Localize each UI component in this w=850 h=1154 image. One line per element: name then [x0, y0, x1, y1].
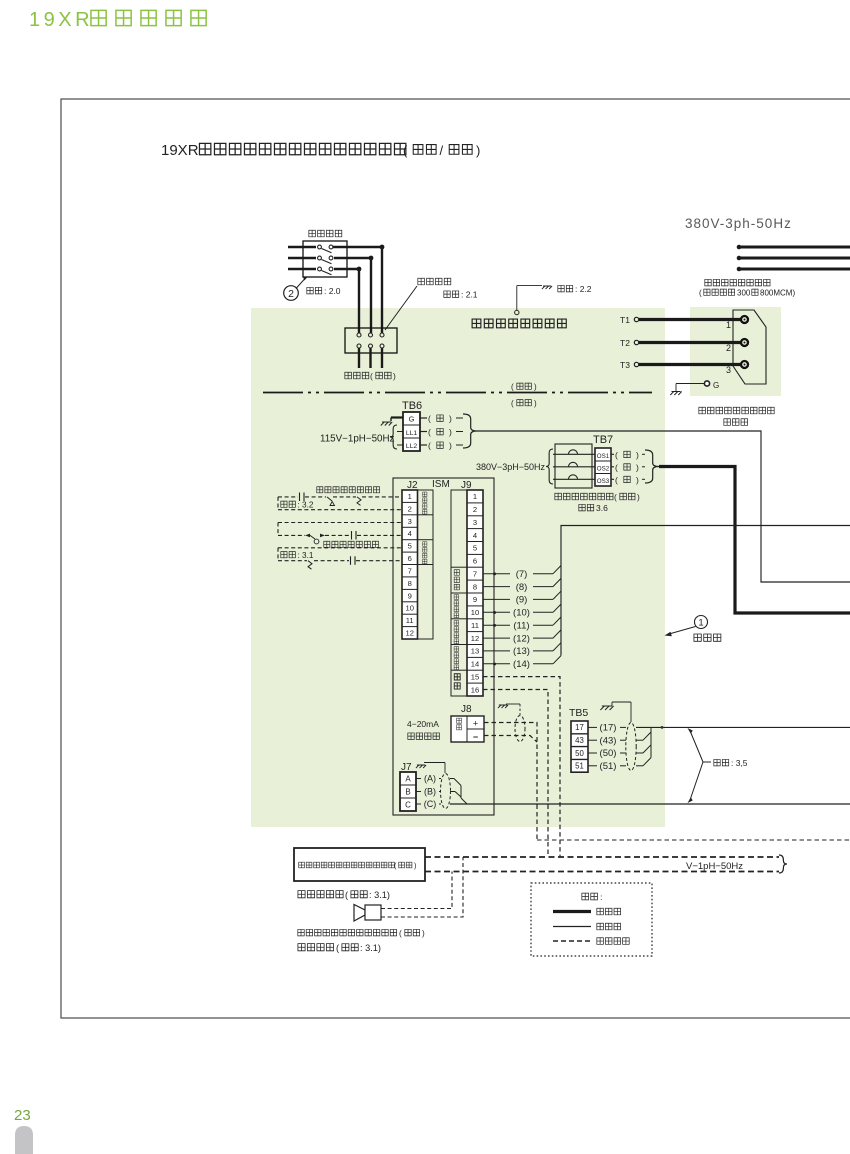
mid voltage label: [511, 383, 537, 392]
svg-text:2: 2: [726, 343, 731, 353]
svg-text:): ): [476, 143, 480, 158]
svg-text:(: (: [403, 143, 408, 158]
svg-text:(B): (B): [424, 787, 436, 797]
optional line C: [425, 871, 779, 873]
note 3.1: [281, 551, 314, 560]
svg-text:OS1: OS1: [597, 453, 610, 460]
svg-text:9: 9: [408, 591, 412, 600]
remote on/off label: [324, 541, 379, 547]
svg-text:300: 300: [737, 289, 751, 298]
svg-text:3: 3: [473, 518, 477, 527]
svg-text:(: (: [615, 450, 618, 460]
svg-text:: 3.1: : 3.1: [298, 551, 314, 560]
svg-text:50: 50: [575, 749, 584, 758]
svg-text:/: /: [440, 143, 444, 158]
connector J8: [451, 704, 484, 742]
wire phase3 to breaker: [334, 267, 361, 333]
svg-text:2: 2: [408, 504, 412, 513]
TB5 wire (51): [588, 761, 626, 772]
svg-text:2: 2: [288, 288, 294, 300]
svg-text:: 3,5: : 3,5: [731, 758, 748, 768]
svg-text:(12): (12): [513, 633, 530, 644]
remote contact wire 5: [278, 547, 402, 549]
svg-text:TB5: TB5: [569, 707, 588, 719]
svg-text:): ): [636, 450, 639, 460]
svg-text:16: 16: [471, 685, 479, 694]
low voltage label: [511, 399, 537, 408]
svg-text:(: (: [511, 383, 514, 392]
J9 wire (12): [483, 630, 561, 644]
motor terminal plate: [733, 310, 766, 384]
svg-text:): ): [449, 427, 452, 437]
svg-text:6: 6: [408, 554, 412, 563]
svg-text:: 2.2: : 2.2: [575, 284, 592, 294]
motor detail note: [699, 407, 774, 425]
note 3.2: [281, 501, 314, 510]
power feed line L3: [737, 267, 850, 272]
TB6 wire green: [420, 414, 463, 424]
svg-text:23: 23: [14, 1107, 31, 1124]
svg-text:LL2: LL2: [406, 443, 418, 450]
starter cabinet shading: [251, 308, 665, 827]
svg-text:7: 7: [473, 569, 477, 578]
J9 wire (11): [483, 617, 561, 631]
svg-text:6: 6: [473, 557, 477, 566]
svg-text:1: 1: [408, 492, 412, 501]
svg-text:: 3.1): : 3.1): [369, 890, 390, 900]
svg-text:(43): (43): [600, 735, 617, 746]
svg-text:4: 4: [408, 529, 412, 538]
svg-text:11: 11: [471, 621, 479, 630]
spare safety contacts label: [317, 487, 380, 493]
starter cabinet label: [472, 319, 566, 328]
svg-text:): ): [534, 383, 537, 392]
oil pump power wire: [659, 467, 850, 614]
J9 wire (9): [483, 591, 561, 605]
J7 wire (B): [416, 787, 441, 797]
remote contact wire 4: [278, 531, 402, 544]
page title 19XR: [29, 9, 206, 31]
svg-text:G: G: [409, 415, 415, 424]
J8 wire -: [484, 736, 537, 743]
svg-text:J8: J8: [461, 704, 472, 715]
optional line B: [425, 856, 779, 858]
svg-text:(: (: [428, 414, 431, 424]
svg-text:LL1: LL1: [406, 430, 418, 437]
svg-text:(: (: [699, 289, 702, 298]
ground note 2.2: [515, 284, 592, 315]
svg-text:V−1pH−50Hz: V−1pH−50Hz: [686, 861, 743, 872]
svg-text:19XR: 19XR: [161, 142, 199, 159]
TB5 shield: [626, 723, 636, 771]
svg-text:14: 14: [471, 660, 479, 669]
4-20mA label: [407, 719, 439, 739]
remote alarm label: [298, 943, 381, 953]
svg-text:(: (: [615, 475, 618, 485]
circuit breaker CB1: [345, 328, 397, 368]
svg-text:C: C: [405, 801, 411, 810]
TB6 wire white: [420, 441, 463, 451]
svg-text:13: 13: [471, 647, 479, 656]
bracket wires 5-6: [277, 548, 279, 561]
svg-text:(C): (C): [424, 799, 437, 809]
svg-text:): ): [534, 399, 537, 408]
power feed line L1: [737, 245, 850, 250]
remote alarm bell label: [298, 890, 390, 900]
remote bell box: [294, 848, 425, 881]
TB5 wire (50): [588, 748, 626, 759]
svg-text:11: 11: [406, 616, 414, 625]
spare safety contact wire 2: [278, 509, 402, 511]
TB6 ground: [381, 418, 403, 426]
drawing title: [161, 142, 480, 159]
svg-text:T1: T1: [620, 315, 630, 325]
J9 wire 16 (optional): [483, 690, 548, 858]
svg-text:10: 10: [405, 604, 413, 613]
legend power line: [553, 908, 621, 915]
svg-text:(11): (11): [513, 620, 529, 631]
TB6 wire black: [420, 427, 463, 437]
note 3.5 bracket: [688, 728, 748, 803]
svg-text:): ): [449, 414, 452, 424]
svg-text:1: 1: [473, 492, 477, 501]
G terminal: [670, 381, 719, 395]
svg-text:(: (: [511, 399, 514, 408]
connector J7: [400, 762, 416, 811]
breaker optional label: [345, 371, 396, 381]
TB5 wire (43): [588, 735, 626, 746]
svg-text:800MCM): 800MCM): [760, 289, 795, 298]
svg-text:(: (: [345, 890, 348, 900]
J9 wire (7): [483, 566, 561, 580]
horn wires: [381, 857, 463, 917]
motor terminal shading: [690, 307, 781, 396]
terminal block TB5: [569, 707, 588, 772]
legend optional line: [553, 938, 629, 945]
svg-text:1: 1: [698, 618, 703, 629]
J9 wire (14): [483, 656, 561, 670]
TB5 bundle: [636, 727, 651, 765]
svg-text:A: A: [405, 775, 411, 784]
remote contact wire 6: [278, 556, 402, 569]
svg-text:TB6: TB6: [402, 400, 422, 412]
TB5 shield ground: [600, 702, 631, 722]
legend control line: [553, 923, 621, 930]
svg-text:(: (: [336, 943, 339, 953]
svg-text:(17): (17): [600, 723, 617, 734]
svg-text:T3: T3: [620, 360, 630, 370]
svg-text:: 3.2: : 3.2: [298, 501, 314, 510]
svg-text:43: 43: [575, 736, 584, 745]
voltage divider line: [263, 392, 652, 394]
svg-text:8: 8: [473, 582, 477, 591]
J9 wire (10): [483, 604, 561, 618]
svg-text:(51): (51): [600, 761, 617, 772]
svg-text:(50): (50): [600, 748, 617, 759]
svg-text:OS3: OS3: [597, 478, 610, 485]
svg-text:(: (: [399, 929, 402, 938]
TB7 wire black: [611, 462, 645, 472]
svg-text:12: 12: [471, 634, 479, 643]
wire lug leader: [385, 286, 417, 330]
J9 wire 15 (optional): [483, 677, 560, 857]
svg-text:(: (: [370, 371, 373, 381]
TB6 left brace: [390, 425, 397, 449]
oil pump note: [555, 492, 640, 513]
svg-text::: :: [600, 892, 602, 902]
J7 wire C long: [450, 803, 850, 805]
TB7 left brace: [546, 449, 553, 484]
remote contact wire 3: [278, 522, 402, 524]
svg-text:3: 3: [726, 365, 731, 375]
svg-text:17: 17: [575, 723, 584, 732]
svg-text:4: 4: [473, 531, 477, 540]
svg-text:): ): [636, 475, 639, 485]
svg-text:: 2.0: : 2.0: [324, 286, 341, 296]
J7 wire (C): [416, 799, 441, 809]
svg-text:G: G: [713, 381, 719, 390]
bracket wires 1-2: [277, 497, 279, 510]
motor lead T2: [620, 338, 748, 353]
optional line A: [537, 839, 850, 841]
svg-text:(8): (8): [516, 582, 528, 593]
terminal block TB7: [593, 434, 613, 486]
svg-text:(: (: [428, 427, 431, 437]
J9 function column: [451, 490, 467, 696]
svg-text:−: −: [473, 732, 478, 742]
J7 bundle: [450, 779, 467, 805]
connector J2: [402, 480, 418, 639]
J7 shield: [441, 774, 451, 809]
svg-text:3: 3: [408, 517, 412, 526]
svg-text:): ): [422, 929, 425, 938]
svg-text:(10): (10): [513, 608, 530, 619]
svg-text:OS2: OS2: [597, 466, 610, 473]
svg-text:TB7: TB7: [593, 434, 613, 446]
svg-text:(14): (14): [513, 659, 530, 670]
J8 shield ground: [498, 704, 520, 715]
J9 wire (8): [483, 578, 561, 592]
note 2.0 text: [307, 286, 341, 296]
TB7 wire yellow: [611, 450, 645, 460]
svg-text:12: 12: [405, 629, 413, 638]
svg-text:(7): (7): [516, 569, 528, 580]
J9 wire (13): [483, 643, 561, 657]
svg-text:380V−3pH−50Hz: 380V−3pH−50Hz: [476, 462, 546, 472]
J7 shield ground: [416, 763, 445, 774]
horn icon: [354, 905, 381, 922]
svg-text:10: 10: [471, 608, 479, 617]
svg-text:): ): [414, 861, 416, 870]
svg-text:): ): [449, 441, 452, 451]
motor lead T1: [620, 315, 748, 330]
TB5 wire 17 long: [636, 726, 850, 728]
svg-text:): ): [636, 462, 639, 472]
terminal block TB6: [402, 400, 422, 451]
svg-text:(9): (9): [516, 595, 528, 606]
svg-text:1: 1: [726, 320, 731, 330]
svg-text:ISM: ISM: [432, 479, 450, 490]
J8 wire +: [484, 723, 537, 841]
svg-text:51: 51: [575, 762, 584, 771]
TB6 merge brace: [463, 414, 477, 448]
drawing frame: [61, 99, 850, 1018]
TB7 merge brace: [645, 450, 659, 483]
note 2 callout: [284, 277, 307, 300]
power feed line L2: [737, 256, 850, 261]
svg-text:2: 2: [473, 505, 477, 514]
J7 wire (A): [416, 774, 441, 784]
bracket wires 3-4: [277, 523, 279, 536]
J2 function column: [418, 490, 434, 639]
svg-text:115V−1pH−50Hz: 115V−1pH−50Hz: [320, 434, 395, 445]
svg-text:5: 5: [408, 542, 412, 551]
svg-text:(: (: [615, 462, 618, 472]
svg-text:(: (: [614, 492, 617, 502]
wire phase1 to breaker: [333, 245, 384, 333]
svg-text:: 3.1): : 3.1): [360, 943, 381, 953]
feed wire note: [699, 279, 795, 297]
svg-text:380V-3ph-50Hz: 380V-3ph-50Hz: [685, 216, 792, 231]
J8 shield: [515, 716, 525, 742]
disconnect switch SW1: [288, 241, 347, 277]
svg-text:B: B: [405, 788, 410, 797]
user alarm label: [298, 929, 425, 938]
svg-text:5: 5: [473, 544, 477, 553]
motor lead T3: [620, 360, 748, 375]
connector J9: [461, 480, 483, 696]
svg-text:7: 7: [408, 566, 412, 575]
legend box: [531, 883, 652, 956]
TB5 wire (17): [588, 723, 626, 734]
page tab: [15, 1126, 33, 1154]
J9 control bus: [561, 526, 850, 656]
oil pump breaker box: [553, 444, 595, 488]
svg-text:(13): (13): [513, 646, 530, 657]
svg-text:8: 8: [408, 579, 412, 588]
svg-text:: 2.1: : 2.1: [461, 290, 478, 300]
TB7 wire red: [611, 475, 645, 485]
legend title: [582, 892, 603, 902]
svg-text:T2: T2: [620, 338, 630, 348]
svg-text:+: +: [473, 719, 478, 729]
V brace: [779, 855, 787, 873]
note 1 callout: [665, 616, 721, 642]
J9 wire junction dots: [493, 572, 496, 575]
svg-text:15: 15: [471, 672, 479, 681]
svg-text:(: (: [428, 441, 431, 451]
control line 115V to cabinet: [477, 431, 850, 582]
svg-text:9: 9: [473, 595, 477, 604]
svg-text:4−20mA: 4−20mA: [407, 719, 439, 729]
wire lug label: [418, 278, 478, 299]
disconnect switch label: [309, 230, 342, 237]
svg-text:(A): (A): [424, 774, 436, 784]
svg-text:): ): [637, 492, 640, 502]
wire phase2 to breaker: [334, 256, 373, 333]
svg-text:19XR: 19XR: [29, 9, 93, 31]
ISM module box: [393, 478, 494, 815]
svg-text:): ): [393, 371, 396, 381]
spare safety contact wire 1: [278, 493, 402, 506]
svg-text:3.6: 3.6: [596, 503, 608, 513]
